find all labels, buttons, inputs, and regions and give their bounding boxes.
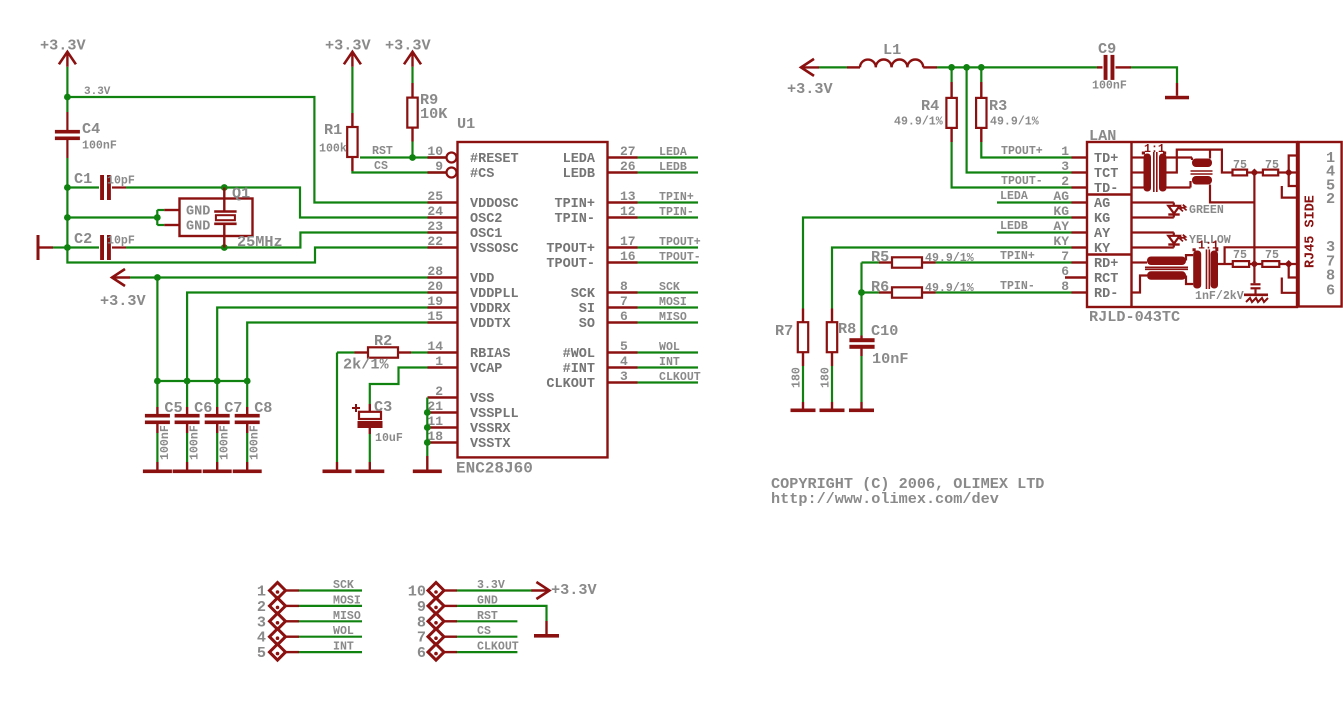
svg-text:KG: KG: [1094, 212, 1110, 227]
wire crystal gnd link: [67, 210, 164, 225]
svg-text:VSSPLL: VSSPLL: [470, 407, 519, 422]
pin 15 (VDDTX) stub: [428, 321, 458, 323]
pin 17 (TPOUT+) stub: [608, 246, 638, 248]
svg-text:22: 22: [427, 234, 443, 249]
svg-text:100nF: 100nF: [82, 140, 117, 153]
wire TPOUT+ net: [981, 142, 1071, 158]
pin name OSC2: [470, 212, 502, 227]
RJ45 pin number 8: [1326, 266, 1335, 284]
pin name #INT: [563, 362, 595, 377]
capacitor C10: [849, 336, 874, 403]
svg-text:2k/1%: 2k/1%: [343, 356, 389, 374]
net label TPOUT- (TD-): [1001, 175, 1043, 188]
header pin 3 stub: [286, 620, 300, 622]
svg-text:25MHz: 25MHz: [237, 233, 283, 251]
pin 28 (VDD) stub: [428, 276, 458, 278]
svg-text:WOL: WOL: [659, 341, 680, 354]
svg-text:25: 25: [427, 189, 443, 204]
node bus junction C6: [184, 378, 191, 385]
wire LEDA net (AG): [997, 201, 1072, 203]
pin 12 (TPIN-) stub: [608, 216, 638, 218]
value 100nF (C9): [1092, 80, 1127, 93]
svg-text:1: 1: [1061, 144, 1069, 159]
wire CS (header): [457, 636, 517, 638]
inductor L1: [847, 60, 937, 68]
svg-text:3: 3: [1061, 159, 1069, 174]
node TCT junction: [963, 64, 970, 71]
svg-text:KY: KY: [1053, 234, 1069, 249]
pin 4 (#INT) stub: [608, 366, 638, 368]
wire net MOSI: [638, 306, 699, 308]
svg-text:+3.3V: +3.3V: [385, 37, 431, 55]
svg-text:RST: RST: [477, 610, 498, 623]
svg-text:100k: 100k: [319, 143, 347, 156]
LAN pin number KY: [1053, 234, 1069, 249]
svg-text:10uF: 10uF: [375, 432, 403, 445]
wire to R1: [351, 67, 353, 113]
svg-text:AG: AG: [1053, 189, 1069, 204]
wire R9 to RST: [411, 142, 413, 158]
RX transformer core: [1207, 249, 1210, 289]
wire rail GND-C2 row: [66, 218, 68, 248]
net label TPOUT+: [659, 236, 701, 249]
svg-text:12: 12: [620, 204, 636, 219]
svg-text:4: 4: [620, 354, 628, 369]
label GREEN: [1189, 204, 1224, 217]
net label RST (header): [477, 610, 498, 623]
net label CS (header): [477, 625, 491, 638]
capacitor C6: [175, 407, 200, 462]
label LAN: [1089, 127, 1116, 145]
svg-text:TD+: TD+: [1094, 152, 1118, 167]
ground C9: [1165, 83, 1189, 99]
svg-text:RD+: RD+: [1094, 257, 1118, 272]
node bus junction C7: [214, 378, 221, 385]
LAN pin RD- stub: [1072, 291, 1088, 293]
LAN pin number 7: [1061, 249, 1069, 264]
net label SCK (header): [333, 579, 354, 592]
svg-text:TPIN-: TPIN-: [659, 206, 694, 219]
svg-text:LEDB: LEDB: [1000, 220, 1028, 233]
svg-text:19: 19: [427, 294, 443, 309]
label RJ45 SIDE (vertical): [1304, 195, 1319, 268]
wire C2 to OSC1: [126, 233, 428, 248]
svg-text:VDD: VDD: [470, 272, 494, 287]
plus sign C3: [352, 404, 360, 412]
pin number 24: [427, 204, 443, 219]
ground R8: [820, 402, 845, 412]
wire RD- to choke: [1132, 276, 1148, 293]
crystal Q1 element: [214, 188, 236, 248]
label R2: [374, 332, 392, 350]
TX transformer 1:1 label: [1144, 143, 1165, 156]
pin name VDD: [470, 272, 494, 287]
capacitor C4: [55, 112, 80, 158]
wire center rail: [1253, 173, 1255, 284]
svg-text:SO: SO: [579, 317, 595, 332]
junction RX center: [1250, 260, 1258, 268]
wire TX sec bottom to choke: [1167, 181, 1191, 188]
pin name VDDPLL: [470, 287, 519, 302]
pin 22 (VSSOSC) stub: [428, 246, 458, 248]
svg-text:VDDRX: VDDRX: [470, 302, 511, 317]
svg-text:Q1: Q1: [232, 185, 250, 203]
pin name #CS: [470, 167, 494, 182]
svg-text:10: 10: [427, 144, 443, 159]
net label 3.3V (header): [477, 579, 505, 592]
svg-text:LAN: LAN: [1089, 127, 1116, 145]
svg-text:C10: C10: [871, 322, 898, 340]
resistor R9: [407, 83, 417, 142]
RJ45 pin number 5: [1326, 176, 1335, 194]
pin 23 (OSC1) stub: [428, 231, 458, 233]
pin name LEDA: [563, 152, 596, 167]
header pin 2 stub: [286, 605, 300, 607]
value 2k/1% (R2): [343, 356, 389, 374]
node R6 junction: [858, 289, 865, 296]
wire net INT: [638, 366, 699, 368]
header pin 4 stub: [286, 636, 300, 638]
svg-text:#WOL: #WOL: [563, 347, 595, 362]
svg-text:6: 6: [1061, 264, 1069, 279]
value 49.9/1% (R6): [925, 282, 974, 295]
svg-text:C1: C1: [74, 170, 92, 188]
node VSSRX junction: [424, 424, 431, 431]
pin number 15: [427, 309, 443, 324]
svg-text:R3: R3: [989, 97, 1007, 115]
pin 8 (SCK) stub: [608, 291, 638, 293]
pin number 17 (right): [620, 234, 636, 249]
pin number 14: [427, 339, 443, 354]
LAN pin name TCT: [1094, 167, 1118, 182]
junction TX center: [1250, 169, 1258, 177]
pin 3 (CLKOUT) stub: [608, 381, 638, 383]
svg-text:+3.3V: +3.3V: [100, 292, 146, 310]
svg-text:SCK: SCK: [333, 579, 354, 592]
wire C4 to C1 node: [66, 158, 68, 188]
wire VDD rail down: [156, 278, 158, 382]
TX choke winding bottom: [1192, 176, 1212, 185]
wire 3.3V (header): [457, 589, 532, 591]
node crystal gnd junction: [64, 214, 71, 221]
svg-text:15: 15: [427, 309, 443, 324]
header pin 2 number: [257, 598, 266, 616]
pin 24 (OSC2) stub: [428, 216, 458, 218]
ground (header): [534, 621, 559, 638]
label C10: [871, 322, 898, 340]
pin number 27 (right): [620, 144, 636, 159]
svg-text:6: 6: [1326, 282, 1335, 300]
TX transformer core: [1154, 152, 1157, 192]
label 75 (RX left): [1233, 249, 1247, 262]
svg-text:28: 28: [427, 264, 443, 279]
svg-text:R8: R8: [838, 320, 856, 338]
svg-text:CLKOUT: CLKOUT: [659, 371, 701, 384]
svg-text:#RESET: #RESET: [470, 152, 519, 167]
svg-text:10K: 10K: [420, 105, 448, 123]
svg-text:100nF: 100nF: [189, 425, 202, 460]
svg-text:13: 13: [620, 189, 636, 204]
resistor R4: [946, 67, 956, 142]
pin name SCK: [571, 287, 596, 302]
svg-text:C8: C8: [254, 399, 272, 417]
capacitor C1: [67, 175, 126, 200]
capacitor C7: [205, 407, 230, 462]
svg-text:10pF: 10pF: [107, 175, 135, 188]
svg-text:8: 8: [1061, 279, 1069, 294]
value ENC28J60: [456, 460, 533, 478]
RX choke core: [1145, 267, 1188, 269]
svg-text:GND: GND: [477, 594, 498, 607]
svg-text:RJLD-043TC: RJLD-043TC: [1089, 308, 1180, 326]
wire CLKOUT (header): [457, 651, 517, 653]
label C7: [224, 399, 242, 417]
wire net SCK: [638, 291, 699, 293]
svg-text:LEDB: LEDB: [659, 161, 687, 174]
LAN pin TCT stub: [1072, 171, 1088, 173]
wire net WOL: [638, 351, 699, 353]
pin number 12 (right): [620, 204, 636, 219]
header pin 7 stub: [444, 636, 457, 638]
svg-text:VSSRX: VSSRX: [470, 422, 511, 437]
TX choke winding top: [1192, 159, 1212, 168]
label GND (Q1 pin2): [186, 220, 210, 235]
net label LEDB (AY): [1000, 220, 1028, 233]
net label RST: [372, 145, 393, 158]
wire net LEDB: [638, 171, 699, 173]
wire C1 to OSC2: [126, 188, 428, 218]
svg-text:VSSOSC: VSSOSC: [470, 242, 519, 257]
svg-text:#CS: #CS: [470, 167, 494, 182]
RX choke winding bottom: [1147, 271, 1186, 280]
svg-text:10nF: 10nF: [872, 350, 908, 368]
header pin 5 stub: [286, 651, 300, 653]
net label CLKOUT: [659, 371, 701, 384]
wire C5 top lead: [156, 381, 158, 407]
LAN pin name TD-: [1094, 182, 1118, 197]
wire VDDTX net: [247, 323, 427, 382]
wire TPIN- net: [936, 291, 1072, 293]
svg-text:MOSI: MOSI: [659, 296, 687, 309]
pin number 1: [435, 354, 443, 369]
svg-text:2: 2: [1326, 190, 1335, 208]
svg-text:100nF: 100nF: [1092, 80, 1127, 93]
value 180 (R8) rotated: [820, 367, 833, 388]
wire C8 top lead: [246, 381, 248, 407]
LAN pin name TD+: [1094, 152, 1118, 167]
label Q1: [232, 185, 250, 203]
pin number 7 (right): [620, 294, 628, 309]
wire net TPIN-: [638, 216, 699, 218]
resistor 75 (TX right): [1263, 170, 1278, 176]
svg-text:INT: INT: [333, 641, 354, 654]
wire net LEDA: [638, 156, 699, 158]
net label INT (header): [333, 641, 354, 654]
label R8: [838, 320, 856, 338]
TX transformer primary winding: [1142, 152, 1151, 192]
wire RJ45 pin6 link: [1282, 278, 1299, 293]
RX transformer secondary winding: [1211, 248, 1219, 288]
wire net MISO: [638, 321, 699, 323]
svg-text:LEDA: LEDA: [1000, 190, 1028, 203]
label L1: [883, 41, 901, 59]
wire C4 top lead: [66, 97, 68, 112]
svg-text:R7: R7: [775, 322, 793, 340]
svg-text:RJ45 SIDE: RJ45 SIDE: [1304, 195, 1319, 268]
pin name VSS: [470, 392, 494, 407]
pin name VDDRX: [470, 302, 511, 317]
label C9: [1098, 40, 1116, 58]
capacitor C3 (polarized): [358, 404, 383, 462]
header pin 5 number: [257, 644, 266, 662]
value 180 (R7) rotated: [791, 367, 804, 388]
value 100nF (C7) rotated: [219, 425, 232, 460]
svg-text:CS: CS: [477, 625, 491, 638]
pin number 28: [427, 264, 443, 279]
pin name SI: [579, 302, 595, 317]
label R5: [871, 248, 889, 266]
ground R2: [323, 462, 352, 473]
wire RJ45 pin2 link: [1282, 186, 1299, 198]
wire R2 to gnd: [336, 353, 338, 463]
svg-text:C3: C3: [374, 398, 392, 416]
svg-text:TPOUT-: TPOUT-: [659, 251, 701, 264]
pin number 22: [427, 234, 443, 249]
svg-text:17: 17: [620, 234, 636, 249]
pin name TPOUT+: [546, 242, 595, 257]
wire TCT net: [967, 67, 1072, 172]
svg-text:AG: AG: [1094, 197, 1110, 212]
RJ45 pin number 2: [1326, 190, 1335, 208]
power +3.3V symbol (header): [531, 581, 597, 599]
svg-text:GREEN: GREEN: [1189, 204, 1224, 217]
LAN pin RCT stub: [1065, 276, 1087, 278]
wire MISO (header): [299, 620, 362, 622]
svg-text:16: 16: [620, 249, 636, 264]
resistor R6: [862, 287, 936, 297]
wire RX choke to primary bottom: [1186, 276, 1193, 285]
svg-text:100nF: 100nF: [249, 425, 262, 460]
wire RX res link: [1249, 263, 1262, 265]
RX choke winding top: [1147, 257, 1186, 266]
node crystal bottom junction: [221, 244, 228, 251]
wire rail C1-GND row: [66, 188, 68, 218]
svg-text:SCK: SCK: [571, 287, 596, 302]
svg-text:100nF: 100nF: [159, 425, 172, 460]
value 10uF (C3): [375, 432, 403, 445]
svg-text:TPOUT+: TPOUT+: [1001, 145, 1043, 158]
label C2: [74, 230, 92, 248]
svg-text:TD-: TD-: [1094, 182, 1118, 197]
svg-text:TPIN+: TPIN+: [1000, 250, 1035, 263]
svg-text:TCT: TCT: [1094, 167, 1118, 182]
svg-text:180: 180: [791, 367, 804, 388]
LAN pin name AG: [1094, 197, 1110, 212]
header pin 4 number: [257, 629, 266, 647]
net label INT: [659, 356, 680, 369]
pin 26 (LEDB) stub: [608, 171, 638, 173]
svg-text:7: 7: [1061, 249, 1069, 264]
crystal Q1 case: [180, 199, 253, 237]
svg-text:AY: AY: [1053, 219, 1069, 234]
node R3 junction: [978, 64, 985, 71]
node crystal gnd T: [154, 214, 161, 221]
wire RJ45 pin3 link: [1225, 247, 1299, 264]
svg-text:C4: C4: [82, 120, 100, 138]
net label TPIN+ (RD+): [1000, 250, 1035, 263]
svg-text:VCAP: VCAP: [470, 362, 502, 377]
svg-text:26: 26: [620, 159, 636, 174]
pin number 26 (right): [620, 159, 636, 174]
pin name VCAP: [470, 362, 502, 377]
svg-text:2: 2: [1061, 174, 1069, 189]
power +3.3V symbol (VDD arrow): [100, 269, 146, 310]
ground C5: [143, 462, 172, 473]
LED YELLOW: [1132, 233, 1187, 248]
header pin 8 number: [417, 613, 426, 631]
svg-text:10pF: 10pF: [107, 235, 135, 248]
wire KY net: [832, 248, 1072, 309]
wire MOSI (header): [299, 605, 362, 607]
svg-text:SI: SI: [579, 302, 595, 317]
svg-text:2: 2: [435, 384, 443, 399]
wire VCAP net: [370, 368, 428, 405]
header pin 9 pad: [428, 598, 444, 614]
value 49.9/1% (R5): [925, 252, 974, 265]
svg-text:TPIN-: TPIN-: [1000, 280, 1035, 293]
wire TX secondary top loop: [1167, 150, 1233, 173]
pin number 11: [427, 414, 443, 429]
svg-text:TPOUT-: TPOUT-: [546, 257, 595, 272]
resistor 75 (RX left): [1233, 261, 1249, 267]
LAN pin number AG: [1053, 189, 1069, 204]
capacitor C2: [67, 235, 126, 260]
pin name VDDTX: [470, 317, 511, 332]
svg-text:5: 5: [257, 644, 266, 662]
TX transformer secondary winding: [1159, 152, 1167, 192]
node bus junction C8: [244, 378, 251, 385]
value 49.9/1% (R4): [894, 116, 943, 129]
LAN pin TD+ stub: [1072, 156, 1088, 158]
pin 2 (VSS) stub: [428, 396, 458, 398]
header pin 10 pad: [428, 583, 444, 599]
pin number 4 (right): [620, 354, 628, 369]
label C4: [82, 120, 100, 138]
junction TX right: [1285, 169, 1293, 177]
svg-text:MISO: MISO: [659, 311, 687, 324]
pin number 16 (right): [620, 249, 636, 264]
label R9: [420, 91, 438, 109]
svg-text:GND: GND: [186, 220, 210, 235]
crystal Q1 gnd pins: [164, 210, 180, 225]
header pin 6 pad: [428, 644, 444, 660]
pin 16 (TPOUT-) stub: [608, 261, 638, 263]
pin name SO: [579, 317, 595, 332]
svg-text:6: 6: [417, 644, 426, 662]
chassis ground (1nF): [1244, 295, 1268, 302]
wire RX res to RJ45 pin7: [1279, 263, 1298, 265]
svg-text:49.9/1%: 49.9/1%: [990, 116, 1039, 129]
resistor 75 (TX left): [1233, 170, 1248, 176]
pin name LEDB: [563, 167, 595, 182]
wire RST net: [360, 156, 447, 158]
svg-text:TPIN+: TPIN+: [554, 197, 595, 212]
wire net TPOUT-: [638, 261, 699, 263]
wire C10 lead: [860, 293, 862, 336]
capacitor 1nF/2kV: [1251, 283, 1261, 294]
LAN pin number 1: [1061, 144, 1069, 159]
svg-text:U1: U1: [457, 115, 475, 133]
